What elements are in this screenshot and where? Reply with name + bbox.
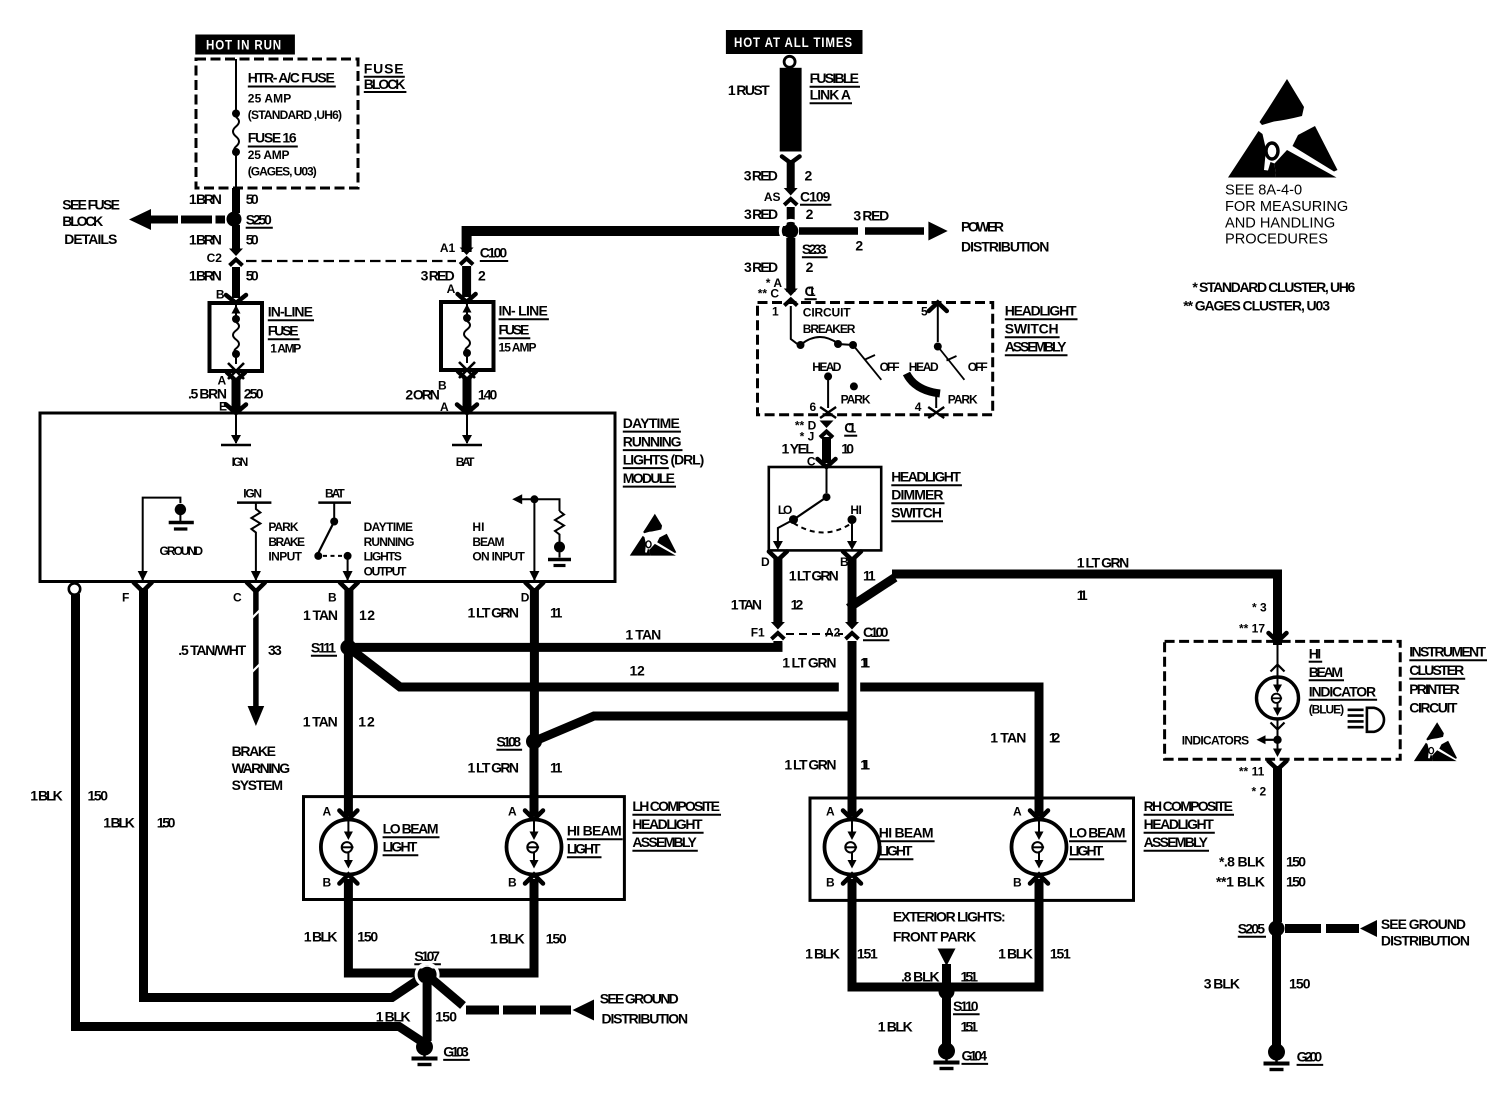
svg-text:A: A [323,805,332,819]
svg-text:GROUND: GROUND [160,544,204,558]
svg-text:** 11: ** 11 [1239,765,1265,779]
ground G200 [1264,1044,1324,1070]
wire 1 TAN 12 S111 to LH lo beam [303,651,375,816]
svg-text:B: B [1013,876,1022,890]
svg-text:HI BEAM: HI BEAM [879,825,934,841]
svg-text:10: 10 [841,441,854,457]
svg-text:1 BRN: 1 BRN [189,232,222,248]
svg-text:ASSEMBLY: ASSEMBLY [1005,339,1067,355]
svg-text:OFF: OFF [880,360,900,374]
svg-text:A: A [826,805,835,819]
svg-text:FUSE 16: FUSE 16 [248,130,297,146]
svg-text:15 AMP: 15 AMP [499,341,537,355]
svg-text:1: 1 [772,305,779,319]
dashed line C2 to A1 [246,260,456,262]
svg-text:S111: S111 [311,640,336,656]
svg-text:1 LT GRN: 1 LT GRN [789,568,839,584]
svg-text:D: D [521,591,530,605]
svg-text:4: 4 [915,400,922,414]
wire .5 BRN 250 fuse to module E [188,373,264,414]
tan bus S111 to RH lo beam [348,647,1060,816]
module exit open circle [69,583,80,594]
svg-text:C100: C100 [480,245,508,261]
svg-text:INDICATOR: INDICATOR [1309,684,1376,700]
wire 3 RED 2 C100 to in-line fuse 15A [421,266,486,297]
svg-text:G103: G103 [443,1044,469,1060]
svg-text:**1 BLK: **1 BLK [1216,874,1265,890]
svg-text:A: A [508,805,517,819]
headlight switch assembly label [1005,303,1078,356]
switch PARK contact (left) [841,382,871,406]
svg-text:A: A [447,282,456,296]
wire 1 TAN 12 module B to S111 [303,588,375,643]
svg-text:1 BLK: 1 BLK [30,788,63,804]
svg-text:HEADLIGHT: HEADLIGHT [1144,816,1215,832]
svg-text:250: 250 [244,386,264,402]
svg-text:2: 2 [805,168,813,184]
svg-text:HI: HI [472,520,484,534]
svg-text:MODULE: MODULE [623,470,675,486]
svg-text:(STANDARD ,UH6): (STANDARD ,UH6) [248,108,342,122]
fuse block label [364,61,407,93]
svg-text:1 BRN: 1 BRN [189,191,222,207]
svg-text:1 TAN: 1 TAN [731,597,762,613]
svg-text:SWITCH: SWITCH [891,505,942,521]
module internal BAT terminal [452,413,482,469]
splice S107 [414,948,441,986]
svg-text:3 BLK: 3 BLK [1204,976,1240,992]
svg-text:BRAKE: BRAKE [232,743,276,759]
svg-text:HOT IN RUN: HOT IN RUN [206,38,282,53]
arrow POWER DISTRIBUTION [799,208,1049,255]
svg-text:F1: F1 [751,626,765,640]
svg-text:LIGHT: LIGHT [383,839,418,855]
svg-text:150: 150 [88,788,109,804]
svg-text:C2: C2 [207,251,223,265]
svg-text:11: 11 [863,568,876,584]
svg-text:2: 2 [478,268,486,284]
svg-text:150: 150 [435,1009,457,1025]
svg-text:** C: ** C [758,287,780,301]
svg-text:HEADLIGHT: HEADLIGHT [632,816,703,832]
svg-text:50: 50 [246,232,259,248]
svg-text:(BLUE): (BLUE) [1309,703,1344,717]
svg-text:1 BLK: 1 BLK [304,929,338,945]
splice S233 [780,220,827,257]
wire 3 RED 2 S233 to C1 [744,238,817,301]
svg-text:D: D [761,555,770,569]
wire 3 RED 2 link to C109 [744,160,813,191]
svg-text:B: B [216,288,225,302]
module exit B [328,583,358,605]
connector C1 at switch [784,289,798,306]
svg-text:PARK: PARK [841,393,871,407]
svg-text:DAYTIME: DAYTIME [623,415,680,431]
svg-text:C: C [233,591,242,605]
RH composite headlight assembly box [810,798,1134,900]
svg-text:HOT AT ALL TIMES: HOT AT ALL TIMES [734,35,853,50]
RH assembly label [1144,798,1234,851]
svg-text:DETAILS: DETAILS [64,231,117,247]
svg-text:FOR MEASURING: FOR MEASURING [1225,199,1348,215]
svg-text:S107: S107 [414,948,440,964]
svg-text:G104: G104 [962,1048,988,1064]
svg-text:LO: LO [778,503,793,517]
wire .5 TAN/WHT 33 brake warning arrow [178,588,290,793]
svg-text:EXTERIOR LIGHTS:: EXTERIOR LIGHTS: [893,909,1006,925]
connector C1 below switch [795,419,857,444]
svg-text:PRINTER: PRINTER [1409,681,1459,697]
svg-text:1 LT GRN: 1 LT GRN [1077,555,1130,571]
svg-text:S250: S250 [246,212,272,228]
wire 2 ORN 140 fuse to module A [405,372,497,415]
svg-text:* 2: * 2 [1252,785,1267,799]
svg-text:DISTRIBUTION: DISTRIBUTION [1381,933,1470,949]
ESD symbol at module [630,514,677,556]
circuit breaker [772,305,857,350]
svg-text:2: 2 [855,238,863,254]
svg-text:11: 11 [1077,587,1088,603]
svg-text:A2: A2 [825,626,841,640]
ESD symbol at cluster [1414,722,1457,761]
svg-text:DISTRIBUTION: DISTRIBUTION [961,239,1049,255]
svg-text:C1: C1 [844,420,856,436]
svg-text:1 BRN: 1 BRN [189,268,222,284]
svg-text:CIRCUIT: CIRCUIT [1409,700,1458,716]
splice S108 [496,733,542,749]
label HOT IN RUN [195,35,295,55]
LH lo beam lamp [321,805,440,890]
wire to instrument cluster entry [1239,601,1287,642]
RH lo beam lamp [1012,805,1127,890]
svg-text:FUSIBLE: FUSIBLE [810,70,859,86]
wire 1 BLK 151 S110 to G104 [878,992,978,1044]
svg-text:BAT: BAT [456,455,475,469]
in-line fuse 15 AMP box [441,294,549,370]
svg-text:IN-LINE: IN-LINE [268,304,313,320]
wire 1 BLK 150 module circle exit to G103 [30,594,424,1043]
svg-text:OFF: OFF [968,360,988,374]
svg-text:ON INPUT: ON INPUT [472,550,525,564]
svg-text:S110: S110 [953,998,979,1014]
in-line fuse 1 AMP box [210,295,315,371]
svg-text:DISTRIBUTION: DISTRIBUTION [602,1011,689,1027]
headlight dimmer switch label [891,469,962,522]
svg-text:BLOCK: BLOCK [364,76,406,92]
svg-text:PARK: PARK [948,393,978,407]
fusible link A [728,56,860,163]
svg-text:150: 150 [1286,874,1306,890]
wire 1 BLK 151 RH lo beam to S110 [950,879,1071,987]
module exit F [122,583,152,605]
LH composite headlight assembly box [304,797,625,900]
svg-text:BRAKE: BRAKE [268,535,305,549]
svg-text:LIGHT: LIGHT [1069,843,1104,859]
ESD note text [1225,183,1348,248]
in-line fuse 1 internals [228,303,244,379]
svg-text:11: 11 [550,605,563,621]
svg-text:12: 12 [358,714,375,730]
dimmer exit D [761,552,787,570]
svg-text:CIRCUIT: CIRCUIT [803,306,851,320]
switch right section pin 5 [921,303,947,351]
svg-text:LIGHT: LIGHT [567,841,601,857]
svg-text:S233: S233 [802,241,827,257]
svg-text:LH COMPOSITE: LH COMPOSITE [632,798,720,814]
svg-text:151: 151 [961,1019,979,1035]
svg-text:* STANDARD CLUSTER, UH6: * STANDARD CLUSTER, UH6 [1192,279,1355,295]
svg-text:C1: C1 [805,283,816,299]
svg-text:INSTRUMENT: INSTRUMENT [1409,644,1486,660]
svg-text:HI: HI [1309,646,1322,662]
svg-text:A1: A1 [440,241,456,255]
svg-text:3 RED: 3 RED [744,259,778,275]
wire 1 BLK 150 LH lo beam to S107 [304,879,425,973]
label HOT AT ALL TIMES [726,30,863,54]
svg-text:2 ORN: 2 ORN [405,387,440,403]
svg-text:1 AMP: 1 AMP [270,342,301,356]
svg-text:INDICATORS: INDICATORS [1182,734,1250,748]
svg-text:11: 11 [860,757,870,773]
svg-text:IGN: IGN [232,455,249,469]
svg-text:LINK A: LINK A [810,87,851,103]
splice S205 [1238,921,1285,937]
svg-text:1 BLK: 1 BLK [103,815,135,831]
svg-text:BLOCK: BLOCK [62,213,103,229]
svg-text:CLUSTER: CLUSTER [1409,662,1464,678]
DRL module label [623,415,705,487]
wire cluster exit to S205 [1216,761,1306,922]
svg-text:12: 12 [791,597,804,613]
LH assembly label [632,798,721,851]
svg-text:IN- LINE: IN- LINE [499,303,548,319]
svg-text:POWER: POWER [961,219,1004,235]
arrow see ground distribution (S107) [430,978,688,1027]
svg-text:12: 12 [359,607,375,623]
wire 1 BRN 50 C2 to in-line fuse [189,267,259,302]
svg-text:G200: G200 [1297,1049,1323,1065]
fuse HTR-A/C / FUSE 16 symbol [232,59,240,188]
fuse labels HTR- A/C FUSE 25 AMP [248,70,342,123]
grn bus S108 to A2 wire [534,716,852,741]
svg-text:1 TAN: 1 TAN [625,627,661,643]
svg-text:B: B [826,876,835,890]
svg-text:SWITCH: SWITCH [1005,321,1059,337]
svg-text:1 BLK: 1 BLK [805,946,840,962]
svg-text:HEADLIGHT: HEADLIGHT [1005,303,1077,319]
svg-text:FUSE: FUSE [499,322,530,338]
svg-text:LIGHTS: LIGHTS [364,550,402,564]
tan bus S111 to F1 [348,627,782,679]
svg-text:DIMMER: DIMMER [891,487,943,503]
wire 1 BRN 50 S250 to C2 [189,225,259,251]
dimmer exit B [840,552,861,570]
svg-text:BREAKER: BREAKER [803,322,856,336]
svg-text:DAYTIME: DAYTIME [364,520,413,534]
svg-text:OUTPUT: OUTPUT [364,565,408,579]
svg-text:150: 150 [157,815,176,831]
label exterior lights front park [893,909,1006,988]
svg-text:HI BEAM: HI BEAM [567,823,622,839]
svg-text:1 BLK: 1 BLK [998,946,1033,962]
svg-text:RUNNING: RUNNING [364,535,415,549]
wire 3 BLK 150 S205 to G200 [1204,935,1311,1045]
svg-text:A: A [1013,805,1022,819]
svg-text:C100: C100 [863,624,889,640]
ground G104 [934,1043,989,1069]
svg-text:BEAM: BEAM [472,535,504,549]
svg-text:PROCEDURES: PROCEDURES [1225,232,1328,248]
ground G103 [412,1039,470,1065]
wire branch to hi beam indicator bus [849,555,1278,646]
splice S250 [227,212,273,228]
svg-text:3 RED: 3 RED [744,206,778,222]
svg-text:FUSE: FUSE [268,323,299,339]
footnote standard cluster [1192,279,1355,295]
svg-text:1 LT GRN: 1 LT GRN [468,605,520,621]
connector F1 [751,622,785,640]
svg-text:1 BLK: 1 BLK [490,931,525,947]
svg-text:ASSEMBLY: ASSEMBLY [632,834,697,850]
svg-text:150: 150 [546,931,567,947]
svg-text:2: 2 [806,206,814,222]
ESD symbol large [1228,79,1338,178]
headlight switch assembly dashed box [758,303,993,415]
dashed line F1 to A2 [786,633,843,635]
svg-text:1 BLK: 1 BLK [376,1009,411,1025]
svg-text:*.8 BLK: *.8 BLK [1219,854,1265,870]
wire 1 LT GRN 11 A2 down [782,641,870,816]
module exit C [233,583,265,605]
wire 1 LT GRN 11 S108 to LH hi beam [468,745,563,816]
svg-text:B: B [328,591,337,605]
RH hi beam lamp [825,805,935,890]
svg-text:3 RED: 3 RED [853,208,889,224]
svg-text:HEAD: HEAD [812,360,841,374]
arrow see ground distribution (S205) [1285,916,1470,949]
svg-text:151: 151 [857,946,878,962]
module exit D [521,583,544,605]
svg-text:** GAGES CLUSTER, U03: ** GAGES CLUSTER, U03 [1183,298,1330,314]
svg-text:FUSE: FUSE [364,61,404,77]
splice S110 [939,984,980,1015]
svg-text:1 LT GRN: 1 LT GRN [784,757,836,773]
svg-text:.8 BLK: .8 BLK [901,969,940,985]
svg-text:HTR- A/C FUSE: HTR- A/C FUSE [248,70,335,86]
headlight dimmer switch box [769,467,881,550]
svg-text:SEE GROUND: SEE GROUND [1381,916,1466,932]
switch arm to OFF (left) [853,345,900,380]
wire 1 BLK 151 RH hi beam to S110 [805,879,943,987]
switch PARK arm (right, thick) [907,374,979,419]
svg-text:SEE 8A-4-0: SEE 8A-4-0 [1225,183,1302,199]
svg-text:IGN: IGN [243,487,262,501]
connector C2 [207,249,243,266]
wire bus A1 to S233 [467,231,791,252]
svg-text:RUNNING: RUNNING [623,434,682,450]
fuse labels FUSE 16 25 AMP (GAGES, U03) [248,130,317,179]
wire 1 LT GRN 11 module D to S108 [468,588,563,738]
svg-text:33: 33 [268,642,282,658]
wire 1 LT GRN 11 dimmer B down [789,557,876,624]
svg-text:F: F [122,591,129,605]
switch arm to OFF (right) [909,347,988,380]
module internal park brake input [237,487,305,582]
svg-text:3 RED: 3 RED [744,168,778,184]
svg-text:HEADLIGHT: HEADLIGHT [891,469,961,485]
svg-text:INPUT: INPUT [268,550,302,564]
svg-text:6: 6 [810,400,817,414]
svg-text:FRONT PARK: FRONT PARK [893,929,976,945]
connector A1 C100 [440,241,508,265]
svg-text:1 TAN: 1 TAN [303,607,338,623]
fuse block (dashed box) [196,59,358,188]
switch HEAD contact (left) [810,360,842,418]
splice S111 [311,639,357,655]
svg-text:SEE GROUND: SEE GROUND [600,991,679,1007]
module internal IGN terminal [221,413,251,469]
svg-text:SYSTEM: SYSTEM [232,777,283,793]
svg-text:1 BLK: 1 BLK [878,1019,913,1035]
svg-text:BEAM: BEAM [1309,664,1343,680]
svg-text:1 TAN: 1 TAN [990,730,1026,746]
in-line fuse 2 internals [459,302,475,378]
instrument cluster printed circuit dashed box [1165,641,1401,759]
svg-text:12: 12 [630,663,646,679]
svg-text:150: 150 [1289,976,1311,992]
connector C109 [764,188,832,205]
svg-text:151: 151 [1050,946,1071,962]
wire 3 RED 2 C109 to S233 [744,206,814,226]
LH hi beam lamp [507,805,623,890]
wire 1 BLK 150 S107 to G103 [376,975,458,1041]
svg-text:.5 TAN/WHT: .5 TAN/WHT [178,642,246,658]
module internal DRL output switch [314,487,414,582]
hi beam indicator lamp [1257,641,1378,729]
svg-text:PARK: PARK [268,520,298,534]
svg-text:LO BEAM: LO BEAM [383,821,439,837]
wire 1 TAN 12 dimmer to F1 [731,557,804,624]
svg-text:RH COMPOSITE: RH COMPOSITE [1144,798,1233,814]
module internal ground [138,498,204,581]
svg-text:B: B [508,876,517,890]
svg-text:1 LT GRN: 1 LT GRN [782,655,836,671]
svg-text:50: 50 [246,268,259,284]
svg-text:151: 151 [961,969,979,985]
dimmer internals [773,467,862,550]
indicators tap [1182,719,1282,757]
svg-text:150: 150 [1286,854,1306,870]
svg-text:AS: AS [764,190,781,204]
wire 1 YEL 10 C1 to dimmer [782,437,855,469]
svg-text:S108: S108 [496,734,521,750]
svg-text:C109: C109 [800,189,831,205]
svg-text:25 AMP: 25 AMP [248,92,291,106]
svg-text:11: 11 [860,655,870,671]
svg-text:140: 140 [478,387,498,403]
svg-text:1 TAN: 1 TAN [303,714,338,730]
arrow SEE FUSE BLOCK DETAILS [62,197,225,248]
svg-text:50: 50 [246,191,259,207]
wire 1 BLK 150 LH hi beam to S107 [429,879,567,973]
svg-text:HEAD: HEAD [909,360,939,374]
svg-text:SEE FUSE: SEE FUSE [62,197,120,213]
svg-text:AND HANDLING: AND HANDLING [1225,216,1335,232]
svg-text:(GAGES, U03): (GAGES, U03) [248,165,317,179]
svg-text:1 LT GRN: 1 LT GRN [468,760,520,776]
wire 1 BLK 150 module F to S107 [103,588,424,998]
svg-text:B: B [323,876,332,890]
